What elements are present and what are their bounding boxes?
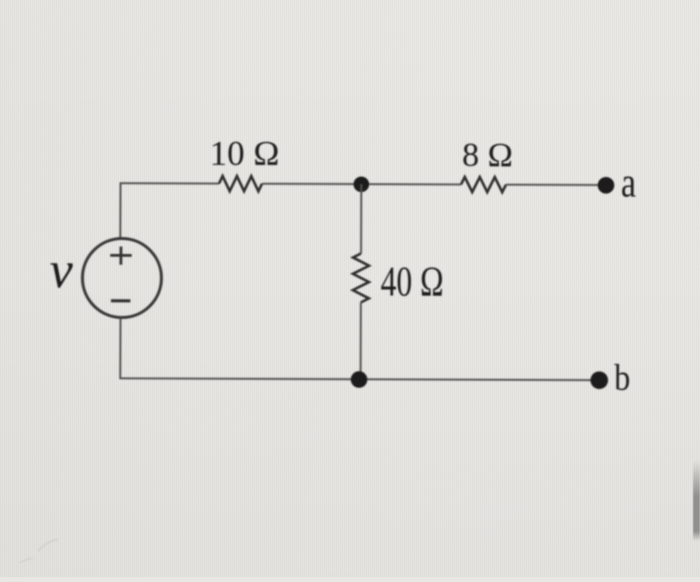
svg-text:a: a <box>621 160 636 206</box>
svg-text:10 Ω: 10 Ω <box>210 134 280 173</box>
minus sign inside source <box>111 299 130 302</box>
node dot bottom junction <box>351 371 368 388</box>
wire top right segment <box>506 184 606 186</box>
svg-text:8 Ω: 8 Ω <box>462 137 513 174</box>
plus sign inside source <box>110 246 132 264</box>
faint scratch lower left <box>20 558 33 563</box>
voltage source V circle <box>82 238 161 317</box>
svg-text:b: b <box>614 358 630 399</box>
resistor R2 8ohm zigzag <box>461 177 506 192</box>
wire bottom left vertical and bottom run <box>120 318 599 380</box>
wire top middle segment <box>262 183 461 186</box>
svg-text:v: v <box>50 242 74 299</box>
wire middle vertical upper <box>360 184 362 253</box>
faint scratch bottom left <box>38 539 58 551</box>
terminal dot b <box>590 371 608 389</box>
node dot top junction <box>353 176 369 192</box>
photo edge gray bar right side <box>0 0 1 1</box>
wire top left segment <box>120 183 219 239</box>
wire middle vertical lower <box>360 302 362 379</box>
resistor R1 10ohm zigzag <box>219 176 262 191</box>
svg-text:40 Ω: 40 Ω <box>381 260 444 306</box>
resistor R3 40ohm zigzag vertical <box>353 253 369 302</box>
terminal dot a <box>598 177 615 194</box>
